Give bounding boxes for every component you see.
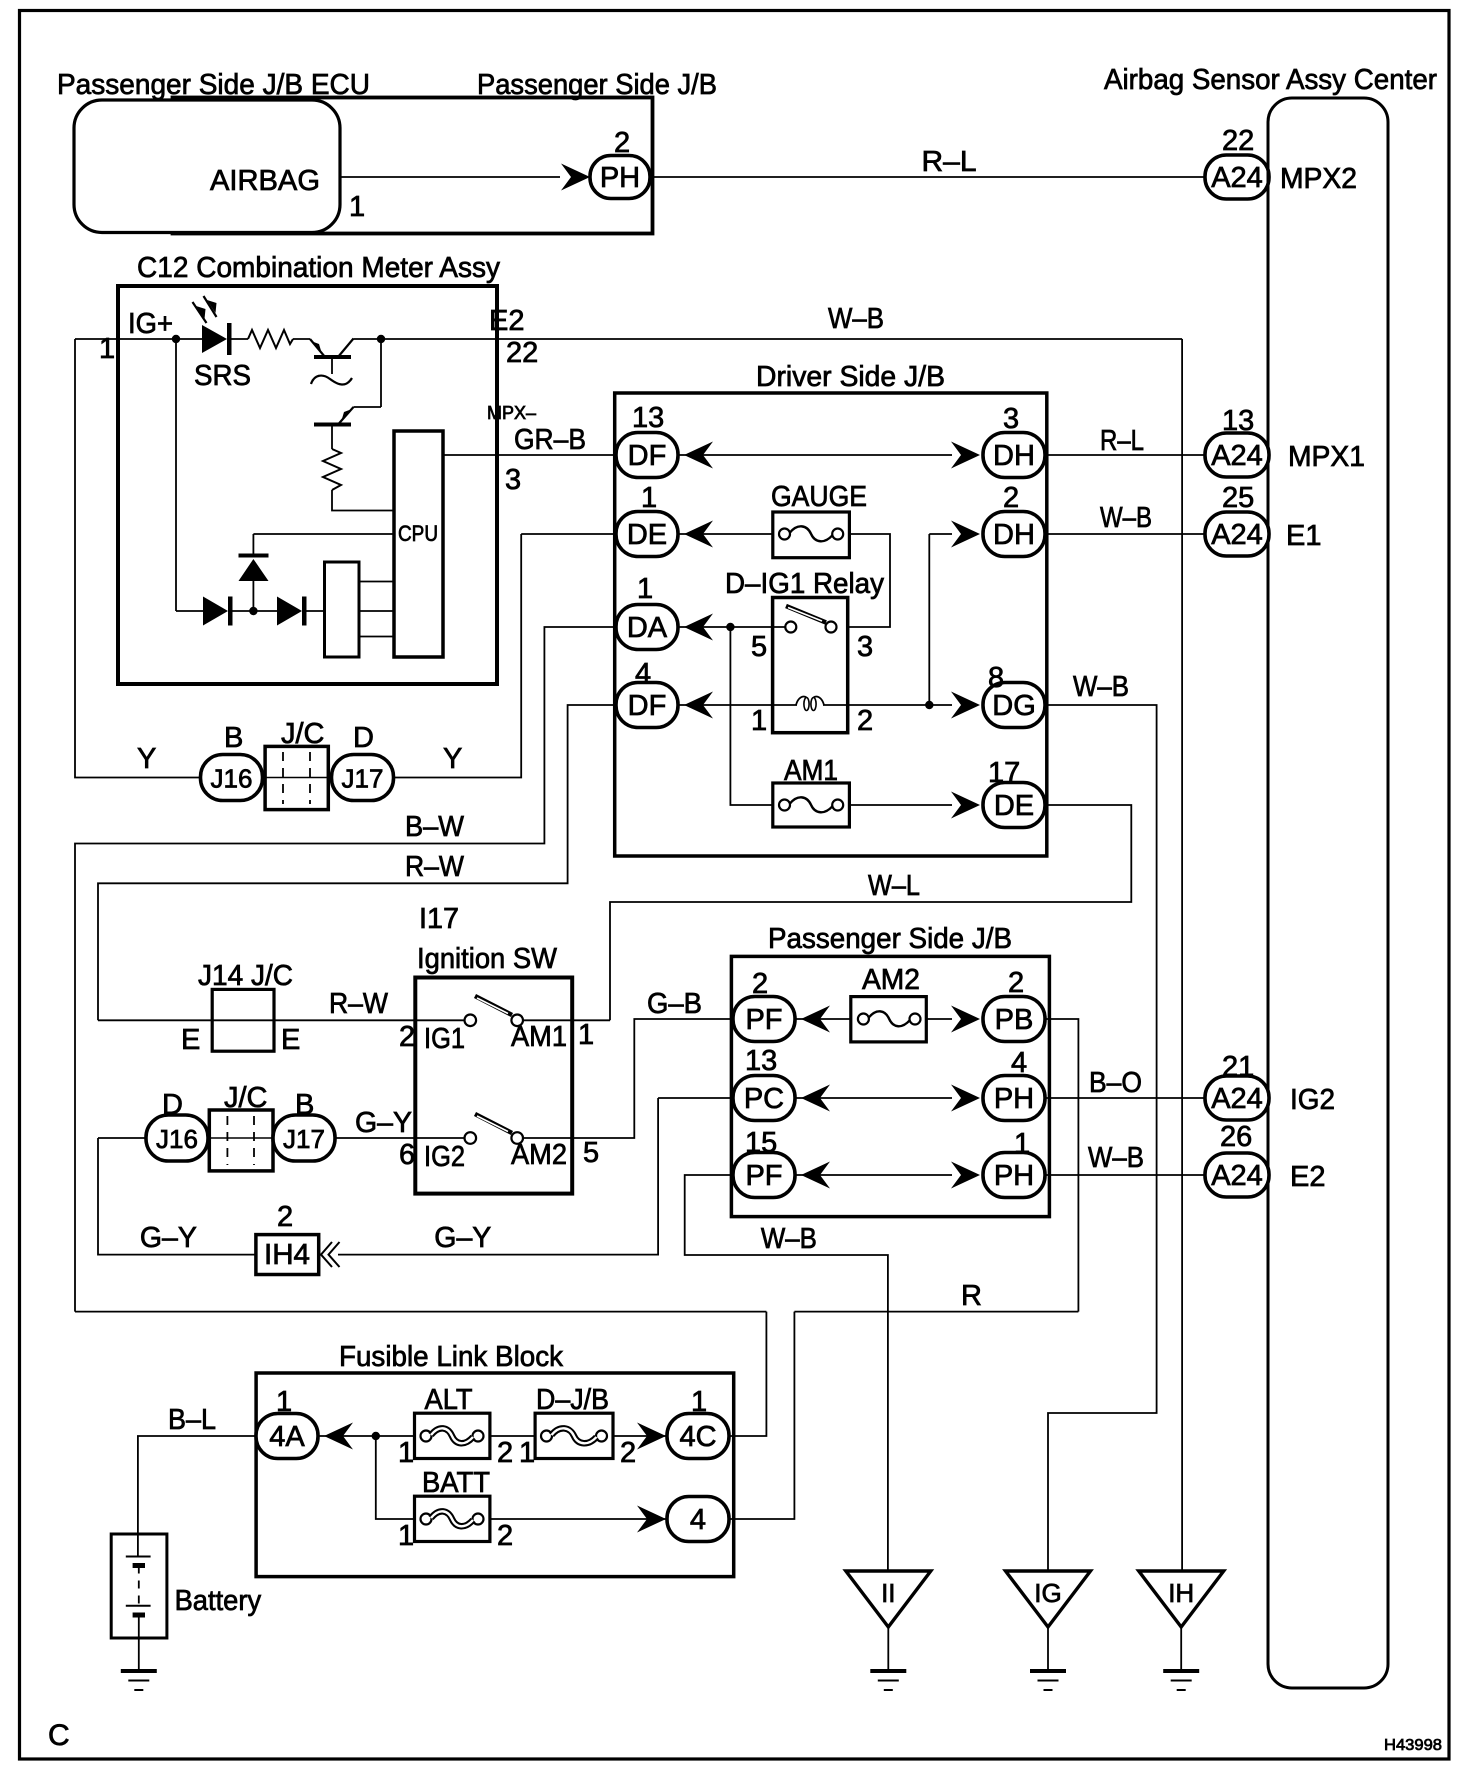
wire AM1 to DA node [730, 627, 772, 805]
wire R2 to CPU [332, 490, 394, 511]
svg-text:Airbag Sensor Assy Center: Airbag Sensor Assy Center [1104, 64, 1437, 96]
svg-text:5: 5 [751, 631, 767, 663]
svg-text:E1: E1 [1286, 520, 1321, 552]
connector DA pin1 [616, 605, 678, 650]
svg-text:J17: J17 [342, 764, 384, 794]
connector arrow DE17 [951, 792, 980, 819]
svg-text:B–W: B–W [405, 811, 465, 843]
transistor Q1 [310, 339, 354, 375]
connector DH pin2 [983, 512, 1045, 557]
fusible link D-J/B element [541, 1428, 607, 1443]
wire IG+ node down [175, 339, 177, 611]
svg-text:W–B: W–B [828, 303, 884, 335]
wire node down to BATT [376, 1436, 415, 1519]
svg-text:DE: DE [627, 519, 667, 551]
connector PB pin2 [983, 997, 1045, 1042]
wire R-L PH to A24 MPX2 [650, 176, 1206, 178]
svg-text:IG+: IG+ [128, 308, 173, 340]
connector A24 pin13 [1205, 433, 1269, 477]
svg-text:13: 13 [1222, 405, 1254, 437]
svg-text:1: 1 [398, 1437, 414, 1469]
resistor R (horizontal) [248, 330, 293, 348]
wire PB2 down [1045, 1019, 1078, 1312]
svg-text:PF: PF [745, 1160, 782, 1192]
transistor Q2 [314, 407, 354, 449]
svg-text:22: 22 [506, 337, 538, 369]
svg-text:2: 2 [1008, 967, 1024, 999]
svg-text:PC: PC [744, 1083, 784, 1115]
wire W-B DG8 to IG ground [1045, 705, 1157, 1571]
thermal wave symbol [311, 376, 352, 385]
box Fusible Link Block [256, 1373, 734, 1577]
wire resistor to Q1 [293, 338, 310, 340]
wire DE1 to GAUGE fuse [678, 533, 773, 535]
wire W-B down to IH ground [1181, 339, 1183, 1571]
wire D-J/B to 4C [613, 1435, 667, 1437]
svg-text:8: 8 [988, 662, 1004, 694]
junction block J/C (lower) [209, 1110, 273, 1171]
fuse AM2 element [858, 1011, 921, 1026]
ECU AIRBAG rounded box [74, 100, 340, 233]
svg-text:J16: J16 [211, 764, 253, 794]
fusible link BATT box [415, 1496, 490, 1541]
connector A24 pin21 [1205, 1076, 1269, 1120]
wire DA1 to relay pin5 [678, 626, 785, 628]
svg-text:1: 1 [349, 191, 365, 223]
svg-text:G–B: G–B [647, 988, 702, 1020]
connector arrow DH3 [951, 442, 980, 469]
fusible link D-J/B box [535, 1413, 613, 1458]
svg-text:E2: E2 [1290, 1161, 1325, 1193]
ground (IH) [1163, 1671, 1199, 1690]
wire AIRBAG pin1 to PH [340, 176, 560, 178]
svg-text:W–B: W–B [1088, 1142, 1144, 1174]
svg-text:II: II [881, 1578, 895, 1608]
connector J17 (B) [273, 1115, 335, 1161]
svg-text:3: 3 [1003, 403, 1019, 435]
svg-text:B–L: B–L [168, 1404, 216, 1436]
svg-text:J16: J16 [156, 1124, 198, 1154]
connector arrow PH1 [951, 1162, 980, 1189]
wire Y from C12 pin1 [75, 339, 201, 778]
svg-text:PH: PH [994, 1083, 1034, 1115]
connector arrow DE1 [684, 521, 713, 548]
resistor R2 (vertical) [323, 449, 341, 490]
svg-text:A24: A24 [1211, 1160, 1263, 1192]
wire B-L 4A to battery [138, 1436, 256, 1557]
connector 4 [667, 1497, 729, 1542]
wire AM2 stub [523, 1137, 572, 1139]
svg-text:H43998: H43998 [1384, 1737, 1442, 1754]
svg-text:IG2: IG2 [1290, 1084, 1335, 1116]
svg-text:D: D [353, 722, 374, 754]
svg-text:DH: DH [993, 519, 1035, 551]
battery plates [126, 1557, 151, 1616]
connector IH4 box [256, 1235, 319, 1275]
svg-text:PH: PH [994, 1160, 1034, 1192]
wire Y riser to DE1 [521, 533, 616, 535]
switch IG2-AM2 [465, 1114, 524, 1144]
svg-text:1: 1 [637, 573, 653, 605]
wire IG1 stub [415, 1019, 464, 1021]
svg-text:13: 13 [745, 1045, 777, 1077]
connector DF pin13 [616, 433, 678, 478]
connector DE pin1 [616, 512, 678, 557]
svg-text:AM2: AM2 [511, 1139, 567, 1171]
ground (II) [870, 1671, 906, 1690]
connector J17 (D) [332, 755, 394, 801]
ground point II [846, 1571, 931, 1627]
svg-text:1: 1 [99, 333, 115, 365]
connector DH pin3 [983, 433, 1045, 478]
connector DG pin8 [983, 683, 1045, 728]
svg-text:4C: 4C [679, 1421, 716, 1453]
svg-text:A24: A24 [1211, 162, 1263, 194]
wire AM1 to DE17 [849, 804, 952, 806]
connector PC pin13 [733, 1076, 795, 1121]
svg-text:1: 1 [519, 1437, 535, 1469]
svg-text:2: 2 [399, 1021, 415, 1053]
connector A24 pin22 [1205, 155, 1269, 199]
connector PH pin4 [983, 1076, 1045, 1121]
wire IH to ground [1180, 1627, 1182, 1671]
svg-text:DA: DA [627, 612, 668, 644]
svg-text:CPU: CPU [398, 521, 438, 546]
box C12 Combination Meter Assy [118, 286, 497, 684]
wire DF4 to relay pin1 [678, 704, 773, 706]
svg-text:I17: I17 [419, 903, 459, 935]
svg-text:J14 J/C: J14 J/C [198, 960, 293, 992]
svg-text:1: 1 [276, 1386, 292, 1418]
wire node down to Q2 [380, 339, 382, 407]
wire 4C to B-W riser [75, 1311, 766, 1313]
wire IG2 stub [415, 1137, 464, 1139]
wire W-B PF15 to II ground [685, 1175, 888, 1571]
wire zener to CPU [253, 533, 394, 535]
svg-text:4: 4 [1011, 1047, 1027, 1079]
svg-text:2: 2 [497, 1520, 513, 1552]
svg-text:AIRBAG: AIRBAG [210, 165, 320, 197]
connector PF pin2 [733, 997, 795, 1042]
wire G-Y to PC13 [658, 1097, 733, 1099]
svg-text:PF: PF [745, 1004, 782, 1036]
link line 3 [359, 636, 394, 638]
svg-text:A24: A24 [1211, 519, 1263, 551]
svg-text:C12 Combination Meter Assy: C12 Combination Meter Assy [137, 252, 500, 284]
connector J16 (B) [201, 755, 263, 801]
svg-text:IG2: IG2 [424, 1141, 465, 1173]
svg-text:3: 3 [505, 464, 521, 496]
diode D2 [277, 597, 307, 626]
svg-text:AM1: AM1 [511, 1021, 567, 1053]
svg-text:W–L: W–L [868, 870, 920, 902]
connector PH pin1 [983, 1153, 1045, 1198]
junction E2 node [377, 335, 385, 343]
svg-text:DF: DF [628, 440, 667, 472]
connector arrow DF4 [684, 692, 713, 719]
connector arrow to PH [561, 164, 590, 191]
wire PF15 to PH1 [795, 1174, 952, 1176]
svg-text:25: 25 [1222, 482, 1254, 514]
svg-text:IH: IH [1168, 1578, 1194, 1608]
svg-text:15: 15 [745, 1127, 777, 1159]
wire R fuse 4 to PB2 [794, 1311, 1078, 1313]
svg-text:1: 1 [1014, 1128, 1030, 1160]
wire B-W DA1 down-left [75, 627, 616, 1312]
wire relay pin2 to DG [848, 704, 952, 706]
svg-text:Fusible Link Block: Fusible Link Block [339, 1341, 563, 1373]
wire PC13 to PH4 [795, 1097, 952, 1099]
svg-text:BATT: BATT [422, 1467, 490, 1499]
junction fusible link node [372, 1432, 380, 1440]
battery box [111, 1534, 167, 1638]
svg-text:3: 3 [857, 631, 873, 663]
svg-text:DF: DF [628, 690, 667, 722]
svg-text:1: 1 [751, 705, 767, 737]
svg-text:PB: PB [995, 1004, 1034, 1036]
svg-text:A24: A24 [1211, 440, 1263, 472]
chevrons into IH4 [321, 1242, 332, 1267]
wire G-B AM2 to PF2 [572, 1019, 733, 1138]
fuse GAUGE element [779, 526, 843, 541]
box Ignition SW [415, 978, 572, 1194]
relay D-IG1 box [773, 598, 848, 733]
svg-text:22: 22 [1222, 125, 1254, 157]
wire node to E2 pin [381, 338, 497, 340]
svg-text:MPX1: MPX1 [1288, 441, 1365, 473]
svg-text:B–O: B–O [1089, 1067, 1142, 1099]
svg-text:Passenger Side J/B: Passenger Side J/B [768, 923, 1012, 955]
wire Q1 to node [354, 338, 382, 340]
fuse GAUGE box [773, 512, 850, 558]
connector arrow DF13 [684, 442, 713, 469]
ground (battery) [121, 1671, 157, 1690]
svg-text:Y: Y [443, 743, 462, 775]
connector arrow DA1 [684, 614, 713, 641]
svg-text:R–L: R–L [1100, 425, 1144, 457]
connector arrow PC13 [801, 1085, 830, 1112]
svg-text:R–W: R–W [405, 851, 465, 883]
zener diode D3 [239, 534, 269, 611]
svg-text:DG: DG [992, 690, 1036, 722]
junction diode node [249, 607, 257, 615]
svg-text:J17: J17 [283, 1124, 325, 1154]
svg-text:W–B: W–B [1100, 502, 1152, 534]
svg-text:MPX–: MPX– [487, 403, 536, 423]
svg-text:IG: IG [1034, 1578, 1061, 1608]
wire W-B E2 to right [497, 338, 1182, 340]
box Passenger Side J/B (lower) [731, 956, 1049, 1216]
relay contact [785, 606, 836, 633]
svg-text:2: 2 [497, 1437, 513, 1469]
wire battery to ground [138, 1615, 140, 1671]
svg-text:J/C: J/C [224, 1082, 268, 1114]
svg-text:2: 2 [752, 968, 768, 1000]
box Driver Side J/B [615, 393, 1047, 856]
svg-text:2: 2 [277, 1201, 293, 1233]
svg-text:4A: 4A [269, 1421, 305, 1453]
svg-text:D–IG1 Relay: D–IG1 Relay [725, 568, 884, 600]
ground point IG [1006, 1571, 1091, 1627]
connector A24 pin26 [1205, 1153, 1269, 1197]
svg-text:13: 13 [632, 402, 664, 434]
wire to diode D1 [176, 610, 203, 612]
connector DE pin17 [983, 783, 1045, 828]
svg-text:2: 2 [857, 705, 873, 737]
svg-text:GAUGE: GAUGE [771, 481, 867, 513]
fuse AM2 box [851, 997, 927, 1042]
Airbag Sensor Assy Center body [1268, 98, 1388, 1688]
connector DF pin4 [616, 683, 678, 728]
connector arrow PF2 [801, 1006, 830, 1033]
wire GAUGE to relay pin3 [848, 534, 890, 627]
wire riser to DH2 [929, 533, 952, 535]
svg-text:17: 17 [988, 757, 1020, 789]
svg-text:GR–B: GR–B [514, 424, 586, 456]
connector J16 (D) [146, 1115, 208, 1161]
svg-text:R–W: R–W [329, 988, 389, 1020]
svg-text:W–B: W–B [761, 1223, 817, 1255]
svg-text:Driver Side J/B: Driver Side J/B [756, 361, 945, 393]
svg-text:2: 2 [1003, 482, 1019, 514]
wire DF13 to DH3 [678, 454, 952, 456]
svg-text:MPX2: MPX2 [1280, 163, 1357, 195]
wire AM1 out [572, 1019, 610, 1021]
connector arrow 4A [324, 1423, 353, 1450]
LED SRS indicator [193, 296, 232, 355]
connector 4C [667, 1414, 729, 1459]
wire 4C up to R1 [729, 1312, 766, 1436]
svg-text:2: 2 [620, 1437, 636, 1469]
wire IG+ to LED [118, 338, 202, 340]
svg-text:SRS: SRS [194, 360, 251, 392]
svg-text:B: B [224, 722, 243, 754]
wire LED to resistor [232, 338, 249, 340]
svg-text:E: E [181, 1024, 200, 1056]
wire R-W DF4 down-left [98, 705, 616, 1020]
wire IG to ground [1047, 1627, 1049, 1671]
ground (IG) [1030, 1671, 1066, 1690]
connector A24 pin25 [1205, 512, 1269, 556]
wire W-B DH2 to A24 E1 [1045, 533, 1206, 535]
svg-text:DH: DH [993, 440, 1035, 472]
svg-text:4: 4 [635, 658, 651, 690]
wire DG node up to DH2 [928, 534, 930, 705]
wire 4A to ALT [318, 1435, 415, 1437]
connector arrow DG8 [951, 692, 980, 719]
interface block (C12) [325, 562, 360, 657]
wire G-Y IH4 to PC13 [338, 1098, 658, 1255]
connector arrow 4C [637, 1423, 666, 1450]
wire to Q2 collector [354, 406, 382, 408]
ground point IH [1139, 1571, 1224, 1627]
svg-text:D–J/B: D–J/B [536, 1384, 609, 1416]
wire II to ground [887, 1627, 889, 1671]
svg-text:G–Y: G–Y [140, 1222, 197, 1254]
diode D1 [203, 597, 233, 626]
fuse AM1 box [773, 783, 850, 827]
wire W-L DE17 to ignition AM1 [610, 805, 1131, 1020]
wire GR-B CPU to DF [443, 454, 616, 456]
svg-text:26: 26 [1220, 1121, 1252, 1153]
link line 1 [359, 581, 394, 583]
connector arrow 4 [637, 1506, 666, 1533]
junction block J/C (upper) [265, 746, 328, 809]
wire G-Y J16 down to IH4 [98, 1138, 256, 1255]
wire AM1 stub [523, 1019, 572, 1021]
svg-text:W–B: W–B [1073, 671, 1129, 703]
svg-text:1: 1 [578, 1019, 594, 1051]
svg-text:DE: DE [994, 790, 1034, 822]
svg-text:Y: Y [137, 743, 156, 775]
wire D1 to D2 [233, 610, 278, 612]
svg-text:1: 1 [398, 1520, 414, 1552]
svg-text:G–Y: G–Y [434, 1222, 491, 1254]
svg-text:J/C: J/C [281, 718, 325, 750]
wire W-B PH1 to A24 E2 [1045, 1174, 1206, 1176]
fusible link BATT element [421, 1511, 484, 1526]
junction DG node [925, 701, 933, 709]
svg-text:ALT: ALT [425, 1384, 473, 1416]
wire AM2 to PB2 [926, 1018, 952, 1020]
CPU block [394, 431, 443, 657]
switch IG1-AM1 [465, 996, 524, 1026]
relay coil [773, 697, 848, 711]
connector arrow PH4 [951, 1085, 980, 1112]
connector PH [590, 156, 650, 199]
wire R-W to IG1 [98, 1019, 415, 1021]
box Passenger Side J/B (top) [173, 98, 653, 234]
svg-text:C: C [48, 1719, 70, 1752]
connector 4A [256, 1414, 318, 1459]
junction DA node [726, 623, 734, 631]
svg-text:AM2: AM2 [862, 964, 920, 996]
svg-text:R: R [961, 1280, 982, 1312]
svg-text:2: 2 [614, 127, 630, 159]
wire C12 pin1 stub [75, 338, 118, 340]
svg-text:Ignition SW: Ignition SW [417, 943, 558, 975]
svg-text:R–L: R–L [922, 146, 977, 178]
wire BATT to 4 [490, 1518, 667, 1520]
svg-text:E2: E2 [489, 305, 524, 337]
wire Y J17 to DE1 [394, 534, 522, 778]
svg-text:1: 1 [691, 1386, 707, 1418]
svg-text:PH: PH [600, 162, 640, 194]
svg-text:IH4: IH4 [264, 1239, 310, 1271]
link line 2 [359, 610, 394, 612]
wire D2 to interface block [307, 610, 325, 612]
svg-text:G–Y: G–Y [355, 1107, 412, 1139]
fuse AM1 element [779, 797, 843, 812]
wire J16 left [98, 1137, 146, 1139]
connector PF pin15 [733, 1153, 795, 1198]
wire R-L DH3 to A24 MPX1 [1045, 454, 1206, 456]
svg-text:IG1: IG1 [424, 1023, 465, 1055]
svg-text:E: E [281, 1024, 300, 1056]
svg-text:5: 5 [583, 1137, 599, 1169]
fusible link ALT element [421, 1428, 484, 1443]
wire 4 up to R2 [729, 1312, 794, 1519]
svg-text:D: D [162, 1089, 183, 1121]
wire ALT to D-J/B [490, 1435, 535, 1437]
svg-text:Battery: Battery [175, 1585, 262, 1617]
svg-text:6: 6 [399, 1139, 415, 1171]
wire B-O PH4 to A24 IG2 [1045, 1097, 1206, 1099]
fusible link ALT box [415, 1413, 490, 1458]
junction IG+ node [172, 335, 180, 343]
connector arrow DH2 [951, 521, 980, 548]
svg-text:21: 21 [1222, 1051, 1254, 1083]
